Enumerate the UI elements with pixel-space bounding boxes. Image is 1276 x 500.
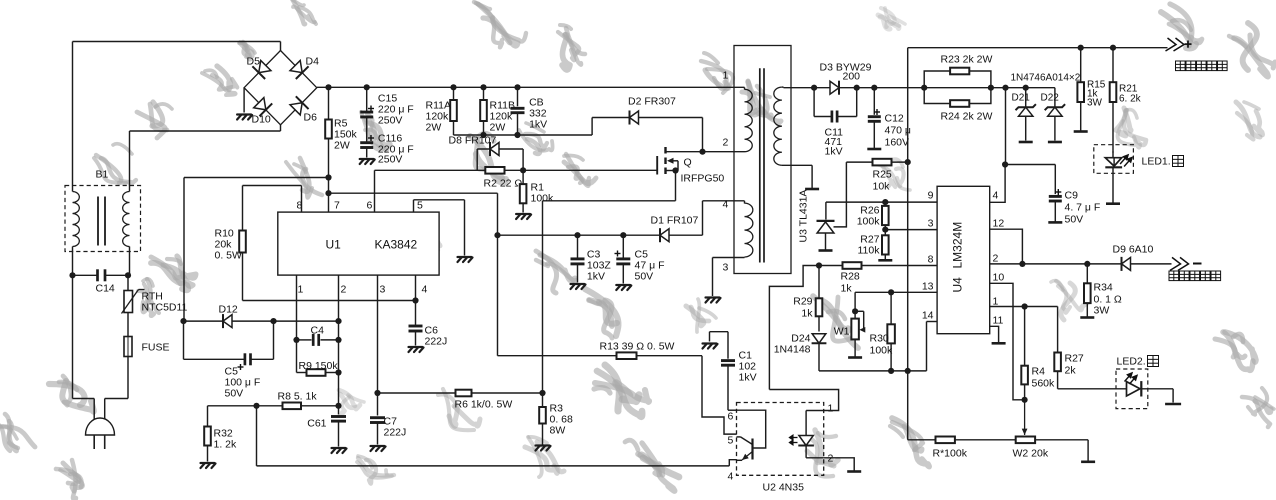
svg-text:4: 4: [728, 471, 734, 483]
svg-text:W1: W1: [834, 326, 850, 338]
svg-text:W2 20k: W2 20k: [1013, 448, 1049, 460]
svg-text:3W: 3W: [1094, 305, 1110, 317]
svg-text:250V: 250V: [378, 154, 403, 166]
svg-text:D1 FR107: D1 FR107: [651, 215, 699, 227]
svg-text:C12: C12: [885, 113, 904, 125]
svg-text:560k: 560k: [1032, 378, 1056, 390]
svg-text:200: 200: [843, 71, 861, 83]
svg-text:2W: 2W: [426, 122, 442, 134]
svg-text:R27: R27: [1065, 353, 1084, 365]
svg-text:B1: B1: [96, 169, 109, 181]
svg-text:R34: R34: [1094, 282, 1113, 294]
svg-text:FUSE: FUSE: [142, 342, 170, 354]
svg-text:10: 10: [993, 272, 1005, 284]
svg-text:50V: 50V: [635, 271, 654, 283]
svg-text:2W: 2W: [490, 122, 506, 134]
svg-text:R25: R25: [873, 169, 892, 181]
svg-text:3: 3: [723, 262, 729, 274]
svg-text:1kV: 1kV: [587, 271, 605, 283]
svg-text:NTC5D11: NTC5D11: [142, 302, 188, 314]
svg-text:6: 6: [367, 200, 373, 212]
svg-text:1kV: 1kV: [529, 119, 547, 131]
svg-text:D2 FR307: D2 FR307: [628, 96, 676, 108]
svg-text:1: 1: [298, 284, 304, 296]
svg-text:1: 1: [993, 296, 999, 308]
svg-text:1k: 1k: [801, 308, 813, 320]
svg-text:8: 8: [928, 254, 934, 266]
svg-text:0. 5W: 0. 5W: [215, 250, 243, 262]
svg-text:3: 3: [380, 284, 386, 296]
svg-text:6: 6: [728, 411, 734, 423]
svg-text:D4: D4: [306, 56, 320, 68]
svg-text:C4: C4: [311, 325, 325, 337]
svg-text:R29: R29: [793, 296, 812, 308]
svg-text:Q: Q: [684, 157, 692, 169]
svg-text:4. 7 μ F: 4. 7 μ F: [1065, 202, 1101, 214]
svg-text:2: 2: [993, 253, 999, 265]
svg-text:2k: 2k: [1065, 365, 1077, 377]
svg-text:D5: D5: [247, 56, 261, 68]
svg-text:D21: D21: [1012, 93, 1031, 104]
svg-text:IRFPG50: IRFPG50: [681, 173, 725, 185]
svg-text:D10: D10: [252, 114, 271, 126]
svg-text:250V: 250V: [378, 115, 403, 127]
svg-text:14: 14: [922, 310, 934, 322]
svg-text:50V: 50V: [225, 388, 244, 400]
svg-text:LM324M: LM324M: [951, 222, 965, 269]
svg-text:4: 4: [993, 190, 999, 202]
svg-text:7: 7: [334, 200, 340, 212]
svg-text:R8 5. 1k: R8 5. 1k: [278, 391, 318, 403]
svg-text:10k: 10k: [873, 181, 891, 193]
svg-text:1: 1: [723, 70, 729, 82]
svg-text:2: 2: [723, 137, 729, 149]
svg-text:1N4746A014×2: 1N4746A014×2: [1011, 73, 1081, 84]
svg-text:R28: R28: [841, 271, 860, 283]
svg-text:12: 12: [993, 218, 1005, 230]
svg-text:5: 5: [728, 435, 734, 447]
svg-text:D6: D6: [304, 112, 318, 124]
svg-text:U2 4N35: U2 4N35: [763, 482, 805, 494]
svg-text:R30: R30: [870, 333, 889, 345]
svg-text:110k: 110k: [858, 245, 881, 257]
svg-text:R9 150k: R9 150k: [299, 360, 339, 372]
svg-text:R24 2k 2W: R24 2k 2W: [941, 111, 993, 123]
svg-text:LED1.: LED1.: [1142, 156, 1171, 168]
svg-text:1: 1: [828, 403, 834, 415]
svg-text:D12: D12: [219, 304, 238, 316]
svg-text:R6 1k/0. 5W: R6 1k/0. 5W: [455, 399, 513, 411]
svg-text:222J: 222J: [384, 427, 407, 439]
svg-text:100k: 100k: [857, 216, 881, 228]
svg-text:D9 6A10: D9 6A10: [1113, 244, 1154, 256]
svg-text:6. 2k: 6. 2k: [1119, 94, 1142, 105]
svg-text:1kV: 1kV: [825, 146, 843, 158]
svg-text:3W: 3W: [1087, 98, 1103, 109]
svg-text:R23 2k 2W: R23 2k 2W: [941, 54, 993, 66]
svg-text:2: 2: [341, 284, 347, 296]
svg-text:160V: 160V: [885, 137, 910, 149]
svg-text:D8 FR107: D8 FR107: [449, 135, 497, 147]
svg-text:R2 22 Ω: R2 22 Ω: [484, 178, 523, 190]
svg-text:C9: C9: [1065, 190, 1079, 202]
svg-text:1N4148: 1N4148: [774, 344, 811, 356]
svg-text:D22: D22: [1041, 93, 1060, 104]
svg-text:C14: C14: [96, 283, 115, 295]
svg-text:R13 39 Ω 0. 5W: R13 39 Ω 0. 5W: [600, 341, 675, 353]
svg-text:13: 13: [922, 281, 934, 293]
svg-text:100k: 100k: [870, 345, 894, 357]
svg-text:C61: C61: [307, 418, 326, 430]
svg-text:11: 11: [993, 315, 1004, 327]
svg-text:R4: R4: [1032, 366, 1046, 378]
svg-text:U4: U4: [951, 277, 965, 293]
svg-text:222J: 222J: [425, 336, 448, 348]
svg-text:1k: 1k: [841, 283, 853, 295]
svg-text:8W: 8W: [550, 425, 566, 437]
svg-text:3: 3: [928, 218, 934, 230]
svg-text:2W: 2W: [334, 140, 350, 152]
svg-text:U1: U1: [326, 238, 342, 252]
svg-text:U3 TL431A: U3 TL431A: [798, 190, 810, 243]
svg-text:KA3842: KA3842: [375, 238, 418, 252]
svg-text:50V: 50V: [1065, 214, 1084, 226]
svg-text:9: 9: [928, 190, 934, 202]
svg-text:5: 5: [417, 200, 423, 212]
svg-text:1kV: 1kV: [739, 372, 757, 384]
svg-text:4: 4: [422, 284, 428, 296]
svg-text:4: 4: [723, 199, 729, 211]
svg-text:1. 2k: 1. 2k: [214, 439, 238, 451]
svg-text:LED2.: LED2.: [1117, 356, 1146, 368]
svg-text:R*100k: R*100k: [933, 448, 968, 460]
